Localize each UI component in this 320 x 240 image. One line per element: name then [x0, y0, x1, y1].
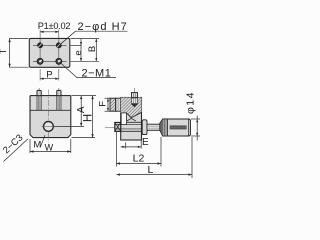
- svg-text:M: M: [33, 140, 41, 151]
- svg-text:E: E: [142, 137, 149, 148]
- svg-text:B: B: [87, 46, 98, 52]
- svg-text:L2: L2: [133, 153, 145, 165]
- svg-text:2−φd H7: 2−φd H7: [78, 21, 128, 33]
- svg-text:W: W: [45, 142, 54, 152]
- svg-text:φ14: φ14: [184, 91, 196, 114]
- svg-text:A: A: [76, 106, 87, 113]
- svg-text:L: L: [147, 164, 153, 176]
- svg-text:H: H: [82, 114, 94, 122]
- svg-text:e: e: [73, 50, 84, 55]
- svg-text:T: T: [0, 48, 9, 54]
- svg-text:P: P: [46, 70, 52, 81]
- svg-text:F: F: [98, 101, 109, 107]
- svg-text:P1±0.02: P1±0.02: [38, 21, 71, 31]
- svg-text:2−M1: 2−M1: [82, 68, 112, 80]
